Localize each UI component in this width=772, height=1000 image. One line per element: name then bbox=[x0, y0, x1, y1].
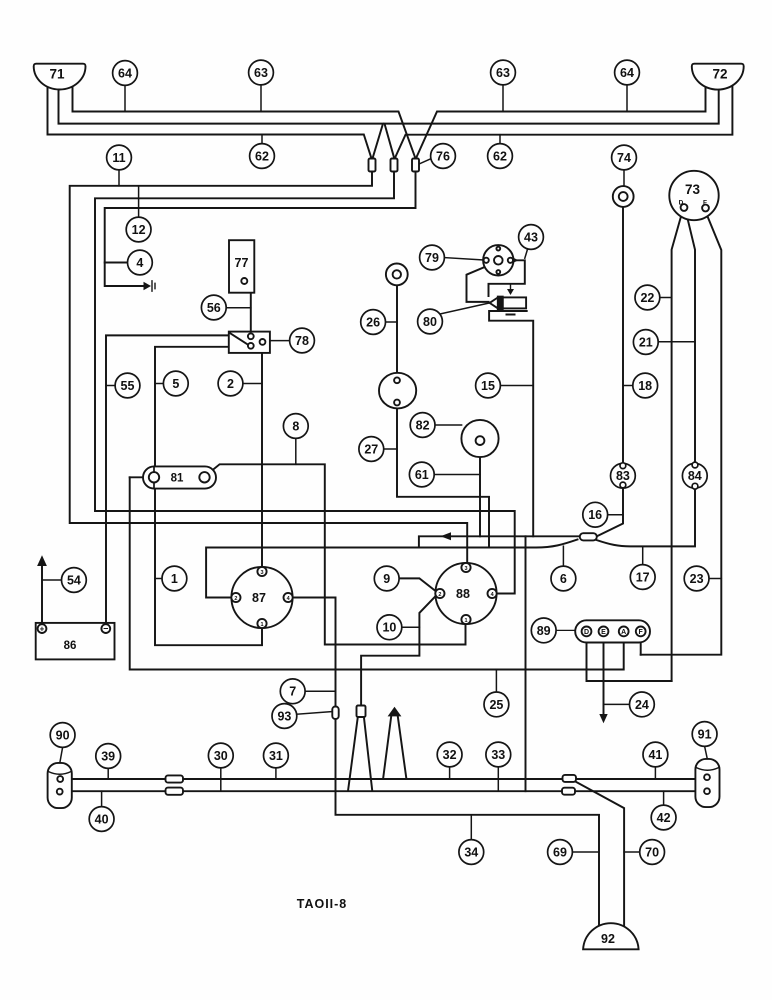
balloon 82 bbox=[410, 413, 435, 438]
svg-text:24: 24 bbox=[635, 698, 649, 712]
balloon 61 bbox=[409, 462, 434, 487]
svg-text:3: 3 bbox=[260, 570, 263, 576]
balloon 31 bbox=[264, 743, 289, 768]
distributor 87 bbox=[231, 567, 292, 628]
wire 23 (dynamo 73 terminal F down to terminal strip F) bbox=[641, 212, 722, 655]
balloon stem 78 bbox=[270, 340, 290, 342]
balloon 63 bbox=[249, 60, 274, 85]
svg-text:6: 6 bbox=[560, 572, 567, 586]
balloon stem 64 right bbox=[626, 85, 628, 111]
wire 4 (connector L3 down-left to ground) bbox=[105, 172, 416, 287]
balloon stem 10 bbox=[402, 626, 420, 628]
balloon stem 63 left bbox=[260, 85, 262, 112]
wire 11/12 (connector L1 down to left harness, to lighting switch feed and dash) bbox=[70, 172, 468, 563]
balloon 79 bbox=[420, 245, 445, 270]
balloon 21 bbox=[633, 330, 658, 355]
wire 17 (connector 16 right toward connector 84 wire) bbox=[597, 489, 696, 547]
balloon stem 69 bbox=[572, 851, 599, 853]
wire 26 (sender terminal down to gauge 0) bbox=[396, 285, 398, 377]
headlamp 72 bbox=[692, 64, 744, 90]
regulator 81 (pill) bbox=[143, 466, 216, 488]
svg-text:71: 71 bbox=[49, 67, 65, 82]
balloon 54 bbox=[62, 568, 87, 593]
wire 39/31/32/41 (upper rear harness, lamp 90 to lamp 91) bbox=[63, 778, 695, 780]
balloon stem 76 bbox=[419, 159, 431, 164]
balloon stem 89 bbox=[556, 629, 575, 631]
balloon stem 23 bbox=[709, 578, 721, 580]
wire 43 (distributor 79 right terminal to coil top) bbox=[489, 260, 525, 296]
svg-text:F: F bbox=[639, 629, 644, 636]
svg-text:69: 69 bbox=[553, 845, 567, 859]
wire D loop (terminal D to wire 22) bbox=[587, 636, 672, 681]
svg-text:23: 23 bbox=[690, 572, 704, 586]
svg-text:A: A bbox=[621, 629, 626, 636]
balloon 76 bbox=[431, 144, 456, 169]
wire 55 (light switch 78 feed to battery negative) bbox=[106, 335, 229, 624]
balloon 40 bbox=[89, 807, 114, 832]
balloon stem 8 bbox=[295, 438, 297, 464]
balloon 34 bbox=[459, 840, 484, 865]
svg-text:62: 62 bbox=[255, 149, 269, 163]
tent legs below arrow connector bbox=[383, 716, 406, 778]
balloon stem 62 left bbox=[261, 135, 263, 144]
generator 88 bbox=[435, 563, 496, 624]
balloon 6 bbox=[551, 566, 576, 591]
balloon 2 bbox=[218, 371, 243, 396]
terminal 74 (double circle) bbox=[613, 186, 634, 207]
balloon 43 bbox=[519, 225, 544, 250]
balloon stem 63 right bbox=[502, 85, 504, 112]
balloon 39 bbox=[96, 744, 121, 769]
svg-text:TAOII-8: TAOII-8 bbox=[297, 897, 348, 911]
wire 74/18/16 (terminal at top down to connector 16) upper part bbox=[622, 207, 624, 463]
svg-text:43: 43 bbox=[524, 230, 538, 244]
balloon stem 11 bbox=[118, 146, 120, 186]
balloon stem 1 bbox=[155, 578, 162, 580]
balloon stem 90 bbox=[60, 747, 63, 763]
balloon stem 16 bbox=[608, 514, 623, 516]
balloon stem 55 bbox=[106, 385, 115, 387]
balloon 15 bbox=[476, 373, 501, 398]
headlamp 71 bbox=[34, 64, 86, 90]
svg-text:31: 31 bbox=[269, 749, 283, 763]
svg-text:E: E bbox=[601, 629, 606, 636]
sender terminal 26 (double circle) bbox=[386, 264, 408, 286]
wire 8 (regulator 81 right terminal to generator 88 bottom) bbox=[208, 464, 466, 644]
balloon 24 bbox=[630, 692, 655, 717]
connector L3 (inline connector, balloon 76) bbox=[412, 159, 419, 172]
balloon 41 bbox=[643, 742, 668, 767]
wire 63 left (headlamp 71 inner lead to connector L3) bbox=[73, 86, 416, 159]
starter switch 82 bbox=[461, 420, 498, 457]
tail lamp 91 bbox=[695, 759, 719, 807]
wire into connector 16 from left harness bbox=[419, 536, 580, 547]
svg-text:10: 10 bbox=[382, 621, 396, 635]
balloon stem 64 left bbox=[124, 85, 126, 111]
tent legs below connector 10 bbox=[348, 717, 372, 790]
terminal F of dynamo 73 bbox=[702, 205, 709, 212]
terminal D of dynamo 73 bbox=[681, 204, 688, 211]
wire 27 (gauge down, across, into harness) bbox=[397, 405, 489, 547]
svg-text:77: 77 bbox=[235, 256, 249, 270]
balloon 33 bbox=[486, 742, 511, 767]
balloon stem 80 bbox=[438, 303, 489, 314]
balloon stem 39 bbox=[107, 768, 109, 779]
balloon stem 18 bbox=[623, 385, 633, 387]
wire 5/1 (switch 78 through regulator 81 left terminal to distributor 87 bottom) bbox=[155, 347, 262, 645]
balloon 12 bbox=[126, 217, 151, 242]
arrowhead on distributor lead bbox=[511, 256, 519, 264]
svg-text:33: 33 bbox=[491, 748, 505, 762]
svg-text:72: 72 bbox=[712, 67, 727, 82]
balloon 64 bbox=[113, 61, 138, 86]
balloon stem 6 bbox=[562, 546, 564, 566]
balloon stem 54 bbox=[42, 579, 62, 581]
balloon 64 bbox=[615, 60, 640, 85]
wire 2 (switch 78 to distributor 87 top) bbox=[261, 345, 263, 567]
balloon stem 31 bbox=[275, 768, 277, 779]
balloon 80 bbox=[418, 309, 443, 334]
wire 62 right (headlamp 72 outer lead to connector L2) bbox=[395, 84, 733, 159]
balloon stem 5 bbox=[155, 383, 163, 385]
coil plus marker bbox=[510, 285, 512, 291]
svg-text:30: 30 bbox=[214, 749, 228, 763]
svg-text:78: 78 bbox=[295, 334, 309, 348]
svg-text:26: 26 bbox=[366, 315, 380, 329]
svg-text:56: 56 bbox=[207, 301, 221, 315]
wire 61 (starter switch 82 down to harness) bbox=[479, 445, 481, 536]
balloon 27 bbox=[359, 437, 384, 462]
svg-text:8: 8 bbox=[292, 419, 299, 433]
svg-text:76: 76 bbox=[436, 149, 450, 163]
balloon 18 bbox=[633, 373, 658, 398]
balloon 32 bbox=[437, 742, 462, 767]
wire 25 (regulator 81 left down and across to terminal A) bbox=[130, 477, 624, 669]
wire 63 right (headlamp 72 inner lead to connector L3) bbox=[416, 86, 706, 159]
balloon 26 bbox=[361, 310, 386, 335]
svg-text:79: 79 bbox=[425, 251, 439, 265]
balloon stem 12 bbox=[138, 186, 140, 218]
balloon stem 34 bbox=[470, 815, 472, 840]
svg-text:91: 91 bbox=[698, 727, 712, 741]
wire 70 (branch from upper harness connector down to stop lamp 92) bbox=[574, 781, 625, 928]
coil minus marker bbox=[507, 314, 515, 316]
svg-text:12: 12 bbox=[132, 223, 146, 237]
svg-text:18: 18 bbox=[638, 379, 652, 393]
balloon stem 7 bbox=[305, 690, 335, 692]
balloon stem 32 bbox=[449, 767, 451, 779]
balloon stem 17 bbox=[642, 546, 644, 564]
svg-text:64: 64 bbox=[620, 66, 634, 80]
balloon 5 bbox=[163, 371, 188, 396]
balloon 69 bbox=[548, 840, 573, 865]
balloon 55 bbox=[115, 373, 140, 398]
balloon stem 15 bbox=[500, 385, 533, 387]
balloon 70 bbox=[640, 840, 665, 865]
fuse holder 77 bbox=[229, 240, 254, 293]
balloon stem 62 right bbox=[499, 135, 501, 144]
balloon 16 bbox=[583, 502, 608, 527]
svg-text:92: 92 bbox=[601, 932, 615, 946]
balloon 30 bbox=[208, 743, 233, 768]
balloon stem 56 bbox=[226, 307, 251, 309]
svg-text:32: 32 bbox=[443, 748, 457, 762]
balloon 93 bbox=[272, 704, 297, 729]
BALLOONS bbox=[50, 60, 717, 864]
connector L1 (inline connector) bbox=[369, 159, 376, 172]
balloon stem 41 bbox=[654, 767, 656, 779]
ground symbol (left) bbox=[144, 282, 152, 291]
connector 10 (bullet connector) bbox=[357, 706, 366, 718]
wire 7/93 (distributor 87 right, down through connector 93 to rear harness) bbox=[291, 598, 336, 707]
balloon 8 bbox=[283, 414, 308, 439]
svg-text:61: 61 bbox=[415, 468, 429, 482]
balloon stem 74 bbox=[623, 170, 625, 186]
svg-text:9: 9 bbox=[383, 572, 390, 586]
balloon stem 79 bbox=[444, 258, 483, 260]
svg-text:84: 84 bbox=[688, 469, 702, 483]
battery 86 bbox=[36, 623, 115, 660]
balloon 56 bbox=[201, 295, 226, 320]
wire 74/18/16 lower part bbox=[597, 487, 624, 536]
balloon 83 bbox=[611, 463, 636, 488]
svg-text:54: 54 bbox=[67, 573, 81, 587]
balloon 62 bbox=[250, 144, 275, 169]
wire 54 (battery positive riser) bbox=[41, 566, 43, 623]
balloon stem 30 bbox=[220, 768, 222, 791]
balloon 62 bbox=[488, 144, 513, 169]
wire 6 (connector 16 left to distributor 87 left terminal) bbox=[206, 540, 577, 598]
svg-text:40: 40 bbox=[95, 812, 109, 826]
svg-text:27: 27 bbox=[364, 442, 378, 456]
wire 9 (to generator 88 left terminal) bbox=[399, 578, 436, 591]
svg-text:D: D bbox=[679, 200, 684, 207]
svg-text:55: 55 bbox=[121, 379, 135, 393]
svg-text:86: 86 bbox=[64, 640, 77, 652]
svg-text:89: 89 bbox=[537, 624, 551, 638]
svg-text:F: F bbox=[703, 200, 707, 207]
balloon stem 26 bbox=[386, 321, 397, 323]
svg-text:2: 2 bbox=[234, 596, 237, 602]
arrow terminal (battery positive) bbox=[37, 555, 47, 566]
connector L2 (inline connector) bbox=[391, 159, 398, 172]
balloon 84 bbox=[682, 463, 707, 488]
svg-text:7: 7 bbox=[289, 685, 296, 699]
arrow marker on harness wire bbox=[441, 532, 452, 540]
balloon 90 bbox=[50, 723, 75, 748]
svg-text:82: 82 bbox=[416, 418, 430, 432]
balloon 1 bbox=[162, 566, 187, 591]
wire 64 right (headlamp 72 middle lead to connector L2) bbox=[385, 89, 719, 159]
wire 64 left (headlamp 71 middle lead to connector L1) bbox=[59, 89, 384, 159]
connector (lower rear harness left) bbox=[166, 788, 184, 795]
connector 93 (bullet connector) bbox=[332, 707, 338, 720]
balloon stem 40 bbox=[101, 791, 103, 807]
svg-text:D: D bbox=[584, 629, 589, 636]
svg-text:2: 2 bbox=[227, 377, 234, 391]
svg-text:63: 63 bbox=[496, 66, 510, 80]
balloon 9 bbox=[374, 566, 399, 591]
ground arrow (terminal E) bbox=[599, 714, 607, 723]
connector 83 (bullet junctions on wire) bbox=[620, 463, 626, 469]
balloon 25 bbox=[484, 692, 509, 717]
svg-text:2: 2 bbox=[438, 592, 441, 598]
wire 24 (terminal E to ground) bbox=[603, 636, 605, 714]
svg-text:41: 41 bbox=[648, 748, 662, 762]
balloon stem 70 bbox=[624, 851, 640, 853]
svg-text:63: 63 bbox=[254, 66, 268, 80]
arrow connector (harness branch) bbox=[388, 707, 402, 717]
svg-text:83: 83 bbox=[616, 469, 630, 483]
balloon stem 33 bbox=[497, 767, 499, 791]
balloon 74 bbox=[612, 145, 637, 170]
balloon 42 bbox=[651, 805, 676, 830]
wire F (terminal F to wire 23) bbox=[640, 636, 642, 655]
balloon stem 4 bbox=[105, 262, 128, 264]
svg-text:25: 25 bbox=[489, 698, 503, 712]
svg-text:16: 16 bbox=[588, 508, 602, 522]
distributor cap 79 bbox=[483, 245, 513, 275]
svg-text:34: 34 bbox=[464, 845, 478, 859]
balloon 7 bbox=[280, 679, 305, 704]
svg-text:−: − bbox=[103, 623, 108, 633]
wire 15 (coil output, down to harness junction) bbox=[489, 311, 533, 536]
balloon 22 bbox=[635, 285, 660, 310]
svg-text:5: 5 bbox=[172, 377, 179, 391]
tail lamp 90 bbox=[48, 763, 72, 808]
connector 16 (inline connector) bbox=[580, 533, 597, 540]
balloon stem 43 bbox=[525, 249, 528, 258]
svg-text:87: 87 bbox=[252, 591, 266, 605]
balloon stem 82 bbox=[435, 424, 462, 426]
wire (connector L2 down-left, to generator 88 field terminal) bbox=[95, 172, 515, 594]
svg-text:1: 1 bbox=[260, 622, 263, 628]
svg-text:90: 90 bbox=[56, 728, 70, 742]
balloon stem 93 bbox=[297, 712, 333, 715]
balloon 63 bbox=[491, 60, 516, 85]
balloon 23 bbox=[684, 566, 709, 591]
connector (upper rear harness right) bbox=[563, 775, 577, 782]
svg-text:81: 81 bbox=[171, 473, 184, 485]
wire 21 (connector 84 up to dynamo 73 terminal D) bbox=[686, 211, 695, 462]
wire 40/30/33/42 (lower rear harness, lamp 90 to lamp 91) bbox=[63, 790, 695, 792]
wire HT lead (distributor 79 centre to coil terminal) bbox=[467, 262, 497, 302]
svg-text:21: 21 bbox=[639, 335, 653, 349]
wire 62 left (headlamp 71 outer lead to connector L1) bbox=[48, 85, 372, 159]
balloon stem 61 bbox=[434, 474, 480, 476]
svg-text:17: 17 bbox=[636, 570, 650, 584]
svg-text:64: 64 bbox=[118, 66, 132, 80]
gauge (oval, balloons 26/27) bbox=[379, 373, 416, 409]
svg-text:73: 73 bbox=[685, 182, 701, 197]
balloon 10 bbox=[377, 615, 402, 640]
svg-text:1: 1 bbox=[464, 618, 467, 624]
balloon 17 bbox=[630, 565, 655, 590]
balloon stem 22 bbox=[660, 297, 672, 299]
wire 7/93 lower part to stop lamp 92 bbox=[336, 720, 600, 926]
svg-text:3: 3 bbox=[464, 566, 467, 572]
balloon stem 25 bbox=[495, 670, 497, 693]
light switch 78 bbox=[229, 332, 270, 353]
stop lamp 92 bbox=[583, 923, 639, 949]
terminal strip 89 (D E A F) bbox=[575, 620, 650, 642]
svg-text:93: 93 bbox=[277, 709, 291, 723]
balloon stem 27 bbox=[384, 448, 397, 450]
wire stub (regulator 81 left terminal) bbox=[130, 476, 149, 478]
balloon 4 bbox=[127, 250, 152, 275]
wire 10 (generator 88 left terminal down to connector and rear) bbox=[361, 596, 436, 706]
wire 56 (fuse holder 77 down to light switch 78) bbox=[247, 284, 251, 332]
balloon 89 bbox=[531, 618, 556, 643]
svg-text:+: + bbox=[40, 625, 45, 634]
svg-text:15: 15 bbox=[481, 379, 495, 393]
svg-text:74: 74 bbox=[617, 151, 631, 165]
svg-text:11: 11 bbox=[112, 151, 125, 165]
balloon stem 21 bbox=[658, 341, 695, 343]
svg-text:62: 62 bbox=[493, 149, 507, 163]
ignition coil (with 80 terminal) bbox=[503, 297, 526, 308]
wire 22 (dynamo 73 terminal D down to terminal strip loop) bbox=[672, 211, 683, 681]
wire (harness drop to lower rear harness) bbox=[525, 536, 527, 791]
svg-text:4: 4 bbox=[136, 256, 143, 270]
svg-text:88: 88 bbox=[456, 587, 470, 601]
svg-text:70: 70 bbox=[645, 845, 659, 859]
svg-text:22: 22 bbox=[640, 291, 654, 305]
svg-text:42: 42 bbox=[657, 811, 671, 825]
svg-text:1: 1 bbox=[171, 572, 178, 586]
balloon 78 bbox=[290, 328, 315, 353]
svg-text:39: 39 bbox=[101, 749, 115, 763]
svg-text:80: 80 bbox=[423, 315, 437, 329]
balloon 91 bbox=[692, 722, 717, 747]
balloon stem 91 bbox=[705, 746, 708, 759]
balloon 11 bbox=[107, 145, 132, 170]
connector (lower rear harness right) bbox=[562, 788, 575, 795]
dynamo 73 bbox=[669, 171, 718, 220]
balloon stem 24 bbox=[604, 703, 630, 705]
balloon stem 2 bbox=[243, 383, 262, 385]
balloon stem 42 bbox=[663, 791, 665, 805]
connector 84 (bullet junctions on wire) bbox=[692, 462, 698, 468]
connector (upper rear harness left) bbox=[166, 775, 184, 782]
